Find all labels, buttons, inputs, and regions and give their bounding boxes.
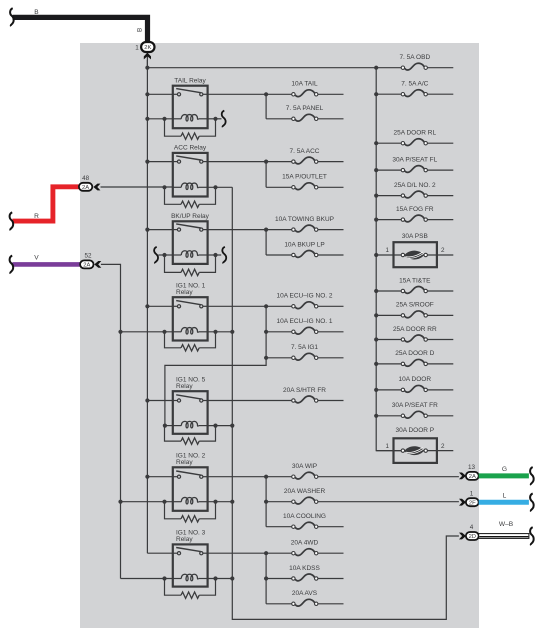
wire B (battery feed, thick black) [13, 17, 148, 41]
junction dot ACC cluster [264, 160, 268, 164]
svg-text:7. 5A PANEL: 7. 5A PANEL [286, 105, 324, 112]
svg-text:2: 2 [441, 443, 445, 450]
relay BK/UP: coil stubs with breaks both sides [158, 254, 173, 256]
svg-text:52: 52 [84, 252, 92, 259]
svg-text:TAIL Relay: TAIL Relay [174, 77, 206, 84]
wire: main bus vertical from connector 2K down to IG1 NO. 3 relay [146, 60, 148, 553]
fuse 10A KDSS [265, 553, 267, 604]
fuse 10A COOLING [266, 526, 292, 528]
relay IG1 NO. 3: wire switch row to fuse junction [147, 552, 172, 554]
svg-text:10A ECU–IG NO. 2: 10A ECU–IG NO. 2 [277, 293, 333, 300]
junction dots on right fuse bank bus [374, 92, 378, 96]
svg-text:2A: 2A [82, 185, 89, 191]
relay TAIL: wire switch row to fuse junction [147, 93, 172, 95]
fuse 7.5A OBD [376, 67, 401, 69]
relay IG1 NO. 3: wire coil row from V bus to chain [121, 578, 173, 580]
junction dot at main bus / feed row [145, 66, 149, 70]
svg-text:7. 5A A/C: 7. 5A A/C [401, 81, 428, 88]
relay IG1 NO. 2 [173, 467, 208, 511]
connector 2K pin 1 (from battery) [146, 52, 148, 68]
fuse 10A ECU-IG NO. 1 [266, 331, 292, 333]
fuse 15A FOG FR [376, 219, 401, 221]
svg-text:W–B: W–B [499, 521, 514, 528]
svg-text:R: R [34, 213, 39, 220]
svg-text:1: 1 [385, 247, 389, 254]
fuse 10A TAIL [266, 93, 292, 95]
junction dot BK/UP cluster [264, 228, 268, 232]
svg-text:2A: 2A [83, 263, 90, 269]
fuse 7.5A A/C [376, 93, 401, 95]
fuse 30A WIP [266, 476, 292, 478]
svg-text:20A WASHER: 20A WASHER [284, 488, 326, 495]
svg-text:10A TOWING BKUP: 10A TOWING BKUP [275, 216, 334, 223]
fuse 7. 5A IG1 [266, 357, 292, 359]
svg-text:ACC Relay: ACC Relay [174, 145, 207, 152]
svg-text:15A TI&TE: 15A TI&TE [399, 277, 431, 284]
svg-text:48: 48 [82, 175, 90, 182]
svg-text:2F: 2F [469, 500, 476, 506]
wire: right fuse bank vertical bus [376, 68, 401, 451]
svg-text:L: L [503, 492, 507, 499]
fusible link 30A PSB (boxed, pins 1-2) [376, 254, 401, 256]
svg-text:BK/UP Relay: BK/UP Relay [171, 213, 210, 220]
svg-text:7. 5A ACC: 7. 5A ACC [290, 148, 320, 155]
fuse 7. 5A ACC [266, 161, 292, 163]
connector 2D pin 4 (wire W-B) [459, 533, 466, 540]
fuse 20A S/HTR FR [208, 400, 292, 402]
svg-text:10A DOOR: 10A DOOR [399, 376, 432, 383]
svg-text:10A ECU–IG NO. 1: 10A ECU–IG NO. 1 [277, 318, 333, 325]
fuse 10A DOOR [376, 389, 401, 391]
svg-text:25A DOOR RR: 25A DOOR RR [393, 326, 437, 333]
svg-text:V: V [34, 254, 39, 261]
svg-text:Relay: Relay [176, 459, 193, 466]
relay IG1 NO. 1 [173, 297, 208, 340]
connector 2A pin 48 (wire R) [12, 187, 79, 221]
svg-text:4: 4 [470, 524, 474, 531]
fuse 30A P/SEAT FR [376, 415, 401, 417]
relay ACC: wire switch row to fuse junction [147, 161, 172, 163]
fusible link 30A DOOR P (boxed, pins 1-2) [376, 450, 401, 452]
relay IG1 NO. 2: wire switch row to fuse junction [147, 476, 172, 478]
relay BK/UP [173, 221, 208, 264]
relay IG1 NO. 3 [173, 544, 208, 586]
svg-text:2: 2 [441, 247, 445, 254]
svg-text:30A DOOR P: 30A DOOR P [395, 427, 434, 434]
relay IG1 NO. 1: wire coil row from V bus to chain [121, 331, 173, 333]
relay TAIL: wire coil row from main bus [147, 118, 172, 120]
fuse 20A 4WD [266, 552, 292, 554]
junction block background panel [80, 43, 479, 628]
svg-text:Relay: Relay [176, 289, 193, 296]
svg-text:1: 1 [385, 443, 389, 450]
svg-text:10A TAIL: 10A TAIL [291, 81, 318, 88]
relay IG1 NO. 1: wire switch row to fuse junction [147, 305, 172, 307]
svg-text:2D: 2D [469, 534, 476, 540]
fuse 10A ECU-IG NO. 2 [266, 305, 292, 307]
svg-text:15A P/OUTLET: 15A P/OUTLET [282, 174, 327, 181]
junction dots on main bus at relay rows [145, 92, 149, 96]
svg-text:15A FOG FR: 15A FOG FR [396, 206, 434, 213]
svg-text:25A DOOR RL: 25A DOOR RL [393, 130, 436, 137]
svg-text:13: 13 [468, 464, 476, 471]
relay IG1 NO. 5: wire coil row to chain [165, 425, 173, 427]
fuse 10A BKUP LP [265, 230, 267, 255]
svg-text:20A 4WD: 20A 4WD [291, 540, 319, 547]
connector 2F pin 1 (wire L) [459, 499, 466, 506]
relay TAIL: coil stub right with break [208, 118, 222, 120]
svg-text:25A DOOR D: 25A DOOR D [395, 350, 434, 357]
wire: feed row to right-hand fuse bank [147, 67, 376, 69]
fuse 25A D/L NO. 2 [376, 195, 401, 197]
svg-text:Relay: Relay [176, 383, 193, 390]
fuse 15A TI&TE [376, 290, 401, 292]
wire: coil return chain from ACC relay down to connector 2D [232, 187, 459, 619]
fuse 15A P/OUTLET [265, 162, 267, 188]
relay IG1 NO. 5: wire switch row from main bus [147, 400, 172, 402]
svg-text:Relay: Relay [176, 536, 193, 543]
svg-text:10A COOLING: 10A COOLING [283, 513, 326, 520]
svg-text:20A AVS: 20A AVS [292, 590, 318, 597]
fuse 7. 5A PANEL [265, 94, 267, 119]
svg-text:1: 1 [470, 490, 474, 497]
junction dot right bus / OBD row [374, 66, 378, 70]
connector 2A pin 52 (wire V) [12, 262, 80, 267]
fuse 30A P/SEAT FL [376, 169, 401, 171]
fuse 10A TOWING BKUP [266, 229, 292, 231]
svg-text:30A P/SEAT FL: 30A P/SEAT FL [392, 156, 437, 163]
relay IG1 NO. 5 [173, 391, 208, 434]
relay IG1 NO. 2: wire coil row from V bus to chain [121, 501, 173, 503]
fuse 25A S/ROOF [376, 314, 401, 316]
relay ACC [173, 153, 208, 197]
svg-text:2A: 2A [469, 474, 476, 480]
relay ACC: wire coil row from connector 48 to chain [101, 186, 173, 188]
fuse 25A DOOR D [376, 363, 401, 365]
svg-text:30A P/SEAT FR: 30A P/SEAT FR [392, 402, 438, 409]
svg-text:B: B [137, 28, 144, 32]
junction dots IG1 NO. 3 cluster [264, 551, 268, 555]
connector 2A pin 13 (wire G) [459, 473, 466, 480]
junction dot TAIL cluster [264, 92, 268, 96]
fuse 25A DOOR RL [376, 142, 401, 144]
svg-text:25A S/ROOF: 25A S/ROOF [396, 302, 434, 309]
svg-text:20A S/HTR FR: 20A S/HTR FR [283, 387, 326, 394]
fuse 25A DOOR RR [376, 339, 401, 341]
svg-text:10A KDSS: 10A KDSS [289, 565, 320, 572]
svg-text:7. 5A IG1: 7. 5A IG1 [291, 344, 318, 351]
svg-text:30A PSB: 30A PSB [402, 233, 428, 240]
break symbol on wire B [10, 8, 14, 26]
svg-text:2K: 2K [144, 45, 151, 51]
svg-text:1: 1 [135, 44, 139, 51]
svg-text:25A D/L NO. 2: 25A D/L NO. 2 [394, 182, 436, 189]
junction dots IG1 NO. 2 cluster [264, 475, 268, 479]
fuse 20A AVS [266, 603, 292, 605]
svg-text:B: B [34, 9, 39, 16]
svg-text:30A WIP: 30A WIP [292, 463, 317, 470]
svg-text:10A BKUP LP: 10A BKUP LP [284, 241, 324, 248]
svg-text:G: G [502, 466, 507, 473]
wire: 7. 5A IG1 branch down/left to IG1 NO. 5 coil [165, 306, 266, 425]
wire: V feed bus from connector 52 down to IG1 NO. 3 coil [101, 264, 121, 578]
svg-text:7. 5A OBD: 7. 5A OBD [399, 54, 430, 61]
relay TAIL [173, 86, 208, 129]
fuse 20A WASHER [265, 477, 267, 527]
relay BK/UP: wire switch row to fuse junction [147, 229, 172, 231]
